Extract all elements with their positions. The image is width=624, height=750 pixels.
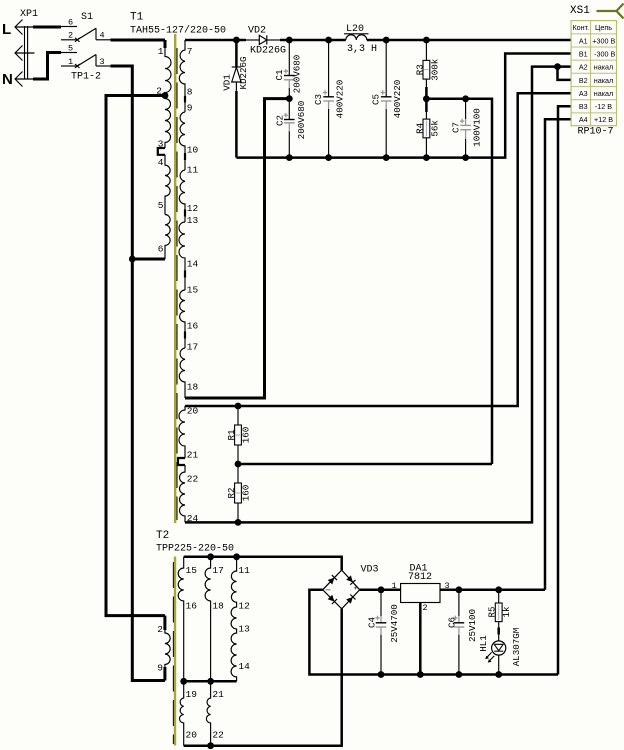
switch S1 pole 1 <box>61 27 111 42</box>
node C7 bottom <box>462 154 469 161</box>
transformer T1 label <box>130 12 226 37</box>
svg-text:14: 14 <box>238 661 250 672</box>
svg-text:11: 11 <box>238 565 250 576</box>
svg-text:7812: 7812 <box>408 572 432 583</box>
node C4 top <box>378 586 385 593</box>
svg-text:T1: T1 <box>130 12 144 24</box>
svg-text:L: L <box>2 21 11 38</box>
svg-text:400V220: 400V220 <box>334 80 345 119</box>
svg-text:16: 16 <box>186 601 198 612</box>
wire XS1 B2 jumper <box>558 67 572 80</box>
T1 secondary winding 7-8 <box>179 40 185 112</box>
T2 winding 11-12-13-14 <box>231 557 236 682</box>
svg-text:C4: C4 <box>366 617 377 629</box>
svg-text:4: 4 <box>100 31 105 41</box>
svg-text:7: 7 <box>187 46 193 57</box>
regulator DA1 <box>392 564 450 614</box>
node VD1 top <box>233 37 240 44</box>
svg-text:C1: C1 <box>274 69 285 81</box>
svg-text:KD226G: KD226G <box>250 46 286 57</box>
capacitor C6 <box>453 590 464 675</box>
svg-text:56k: 56k <box>429 120 440 137</box>
node T2 pin 11 top <box>233 553 240 560</box>
T1 primary winding 2-3 <box>165 96 171 149</box>
resistor R1 <box>235 406 242 464</box>
wire bridge - output to 12V common <box>309 590 558 675</box>
svg-text:B2: B2 <box>579 76 588 85</box>
transformer T2 core <box>174 557 176 746</box>
T1 secondary winding 15-16 <box>180 290 185 348</box>
wire S1 pin 3 down to T1 pin 6 and T2 pin 9 <box>111 66 165 681</box>
svg-text:11: 11 <box>187 165 199 176</box>
svg-text:8: 8 <box>187 87 193 98</box>
node C6 bottom <box>456 671 463 678</box>
svg-text:15: 15 <box>186 565 198 576</box>
wire DA1 pin 2 to common <box>419 603 422 675</box>
svg-text:25V100: 25V100 <box>467 609 478 642</box>
svg-text:TPP225-220-50: TPP225-220-50 <box>156 544 234 555</box>
svg-text:400V220: 400V220 <box>392 80 403 119</box>
svg-text:+12 В: +12 В <box>594 115 613 124</box>
svg-text:17: 17 <box>212 565 223 576</box>
svg-text:22: 22 <box>212 730 224 741</box>
T1 primary winding 4-5 <box>165 155 170 215</box>
T1 jumper pins 21-22 <box>178 458 185 465</box>
svg-text:-12 В: -12 В <box>595 102 612 111</box>
svg-text:VD2: VD2 <box>248 26 266 37</box>
node T2 pin 16-19 <box>180 678 187 685</box>
svg-text:HL1: HL1 <box>478 635 489 652</box>
node C6 top <box>456 586 463 593</box>
node T1 pin 6 junction <box>129 256 136 263</box>
svg-text:A3: A3 <box>579 89 588 98</box>
connector XS1 mating arrow <box>597 4 624 19</box>
resistor R2 <box>235 464 242 522</box>
inductor L20 <box>344 34 369 40</box>
svg-text:15: 15 <box>187 285 199 296</box>
svg-text:XP1: XP1 <box>20 9 38 20</box>
node R3 top <box>423 37 430 44</box>
svg-text:1k: 1k <box>501 606 512 618</box>
T1 heater winding 22-24 <box>180 465 186 522</box>
svg-text:18: 18 <box>187 382 199 393</box>
bridge rectifier VD3 <box>323 570 360 609</box>
connector XS1 table <box>571 21 616 126</box>
svg-text:2: 2 <box>68 31 73 41</box>
svg-text:+300 В: +300 В <box>592 36 615 45</box>
capacitor C1 <box>284 40 295 99</box>
svg-text:-300 В: -300 В <box>594 49 615 58</box>
T2 winding 21-22 <box>206 681 210 745</box>
svg-text:R2: R2 <box>226 487 237 498</box>
svg-text:3: 3 <box>100 57 105 67</box>
svg-text:21: 21 <box>212 689 224 700</box>
svg-text:160: 160 <box>240 427 251 444</box>
node T2 pin 17 top <box>207 553 214 560</box>
XP1 pin L arrow <box>15 20 34 35</box>
svg-text:2: 2 <box>156 86 162 97</box>
svg-text:5: 5 <box>68 44 73 54</box>
wire heater row pin 24 to XS1 A2/B2 <box>185 67 571 523</box>
node C5 bottom <box>383 154 390 161</box>
transformer T1 core <box>174 34 176 523</box>
svg-text:10: 10 <box>187 145 199 156</box>
svg-text:2: 2 <box>157 624 163 635</box>
node C5 top <box>383 37 390 44</box>
svg-text:N: N <box>2 71 13 88</box>
svg-text:T2: T2 <box>156 530 169 542</box>
diode VD2 <box>246 35 280 44</box>
svg-text:160: 160 <box>240 485 251 502</box>
svg-text:Конт.: Конт. <box>572 23 589 32</box>
T2 winding 15-16 <box>178 557 183 682</box>
svg-text:TP1-2: TP1-2 <box>71 72 101 83</box>
node DA1 pin 2 bottom <box>417 671 424 678</box>
svg-text:R3: R3 <box>415 64 426 75</box>
node R1 top <box>235 403 242 410</box>
svg-text:C3: C3 <box>313 94 324 105</box>
svg-text:A4: A4 <box>579 115 588 124</box>
svg-text:6: 6 <box>68 18 73 28</box>
svg-text:C7: C7 <box>451 122 462 133</box>
svg-text:AL307GM: AL307GM <box>511 628 522 667</box>
svg-text:16: 16 <box>187 321 199 332</box>
resistor R5 <box>495 590 502 641</box>
svg-text:4: 4 <box>158 157 164 168</box>
svg-text:1: 1 <box>392 581 397 591</box>
node XS1 A2-B2 tie <box>554 63 561 70</box>
svg-text:5: 5 <box>158 200 164 211</box>
node R3-R4 junction <box>423 95 430 102</box>
resistor R3 <box>423 40 430 99</box>
wire heater row pin 20 to XS1 A3 <box>185 93 571 406</box>
svg-text:RP10-7: RP10-7 <box>578 127 614 138</box>
node C7 top <box>462 95 469 102</box>
XP1 middle pin arrow <box>15 46 35 61</box>
T2 primary winding 2-9 <box>165 616 170 681</box>
connector XP1 body <box>25 26 28 80</box>
svg-text:18: 18 <box>212 601 224 612</box>
T1 primary winding 5-6 <box>165 215 170 260</box>
svg-text:12: 12 <box>238 601 250 612</box>
wire +300V top rail <box>185 39 571 42</box>
svg-text:L20: L20 <box>346 24 364 35</box>
wire R1-R2 junction to bias drop <box>238 463 492 466</box>
wire S1 pin 4 to T1 pin 1 <box>111 39 166 42</box>
wire bias row R3-R4 to C7 to bias drop <box>426 99 492 464</box>
svg-text:B3: B3 <box>579 102 588 111</box>
node C2 bottom <box>286 154 293 161</box>
transformer T2 screen (dashed) <box>172 562 174 744</box>
svg-text:1: 1 <box>158 46 164 57</box>
XP1 pin N arrow <box>15 72 34 87</box>
svg-text:12: 12 <box>187 203 199 214</box>
wire T1 pin 2 to T2 pin 2 <box>106 96 165 616</box>
svg-text:17: 17 <box>187 342 198 353</box>
T1 secondary winding 17-18 <box>179 348 185 398</box>
node C1-C2 midpoint <box>286 95 293 102</box>
svg-text:13: 13 <box>187 215 199 226</box>
T2 winding 19-20 <box>179 681 183 745</box>
svg-text:KD226G: KD226G <box>238 56 249 89</box>
svg-text:20: 20 <box>186 730 198 741</box>
wire L to S1 pin 6 <box>33 26 61 29</box>
svg-text:1: 1 <box>68 57 73 67</box>
diode VD1 <box>232 40 241 158</box>
svg-text:накал: накал <box>594 76 613 85</box>
wire T2 mid node row <box>184 680 237 683</box>
node R1-R2 junction <box>235 461 242 468</box>
svg-text:VD1: VD1 <box>222 74 233 91</box>
svg-text:200V680: 200V680 <box>292 55 303 94</box>
T1 heater winding 20-21 <box>179 406 185 458</box>
svg-text:Цепь: Цепь <box>595 23 612 32</box>
wire XS1 A4 to +12V <box>545 119 571 590</box>
wire bridge + output to DA1 input <box>360 589 401 592</box>
svg-text:C2: C2 <box>275 115 286 126</box>
capacitor C2 <box>284 99 295 158</box>
svg-text:2: 2 <box>423 603 428 613</box>
svg-text:A2: A2 <box>579 63 588 72</box>
svg-text:A1: A1 <box>579 36 588 45</box>
svg-text:S1: S1 <box>81 12 93 23</box>
wire T1 pin 18 to C1-C2 midpoint <box>185 99 289 398</box>
capacitor C5 <box>381 40 392 158</box>
wire DA1 output to +12V <box>440 589 545 592</box>
wire T2 secondary top rail <box>184 557 342 570</box>
svg-text:накал: накал <box>594 89 613 98</box>
capacitor C4 <box>375 590 386 675</box>
T1 secondary inter-section joints <box>184 96 186 339</box>
svg-text:3,3 H: 3,3 H <box>347 44 377 55</box>
svg-text:14: 14 <box>187 259 199 270</box>
wire -300V bottom rail <box>236 54 571 158</box>
wire N to S1 pin 5 <box>33 53 61 80</box>
transformer T2 label <box>156 530 234 555</box>
svg-text:200V680: 200V680 <box>296 101 307 140</box>
node C1 top <box>286 37 293 44</box>
svg-text:B1: B1 <box>579 49 588 58</box>
T2 winding 17-18 <box>205 557 210 682</box>
svg-text:R4: R4 <box>415 122 426 134</box>
T1 jumper pins 3-4 <box>158 148 165 155</box>
svg-text:накал: накал <box>594 63 613 72</box>
wire T1 pin 6 stub <box>132 258 165 261</box>
LED HL1 <box>485 641 506 675</box>
node R2 bottom <box>235 519 242 526</box>
node R5 top <box>495 586 502 593</box>
resistor R4 <box>423 99 430 158</box>
T1 secondary winding 11-12 <box>179 170 185 222</box>
transformer T1 screen (dashed) <box>176 48 178 520</box>
node C4 bottom <box>378 671 385 678</box>
svg-text:XS1: XS1 <box>570 5 590 17</box>
node T1 pin 2 <box>162 92 169 99</box>
svg-text:R1: R1 <box>226 429 237 441</box>
svg-text:9: 9 <box>157 663 163 674</box>
node HL1 bottom <box>495 671 502 678</box>
svg-text:VD3: VD3 <box>361 565 379 576</box>
svg-text:R5: R5 <box>487 606 498 617</box>
wire T2 bottom row to bridge AC2 <box>184 609 342 746</box>
svg-text:22: 22 <box>187 474 199 485</box>
T1 secondary winding 9-10 <box>179 112 185 170</box>
node R4 bottom <box>423 154 430 161</box>
svg-text:C5: C5 <box>371 94 382 105</box>
T1 primary winding 1-2 <box>165 40 171 96</box>
switch S1 pole 2 (TP1-2) <box>61 53 111 69</box>
svg-text:6: 6 <box>158 244 164 255</box>
capacitor C7 <box>460 99 471 158</box>
node T2 pin 22 bottom <box>207 742 214 749</box>
node C3 bottom <box>325 154 332 161</box>
svg-text:21: 21 <box>187 450 199 461</box>
svg-text:13: 13 <box>238 624 250 635</box>
capacitor C3 <box>323 40 334 158</box>
svg-text:300k: 300k <box>429 58 440 81</box>
node C3 top <box>325 37 332 44</box>
svg-text:9: 9 <box>187 103 193 114</box>
T1 secondary winding 13-14 <box>179 222 185 290</box>
svg-text:C6: C6 <box>446 617 457 628</box>
svg-text:TAH55-127/220-50: TAH55-127/220-50 <box>130 25 226 37</box>
node T2 pin 18-21 <box>207 678 214 685</box>
svg-text:25V4700: 25V4700 <box>389 604 400 643</box>
svg-text:19: 19 <box>186 689 198 700</box>
svg-text:100V100: 100V100 <box>472 108 483 147</box>
wire XS1 B3 to 12V common <box>558 106 571 674</box>
